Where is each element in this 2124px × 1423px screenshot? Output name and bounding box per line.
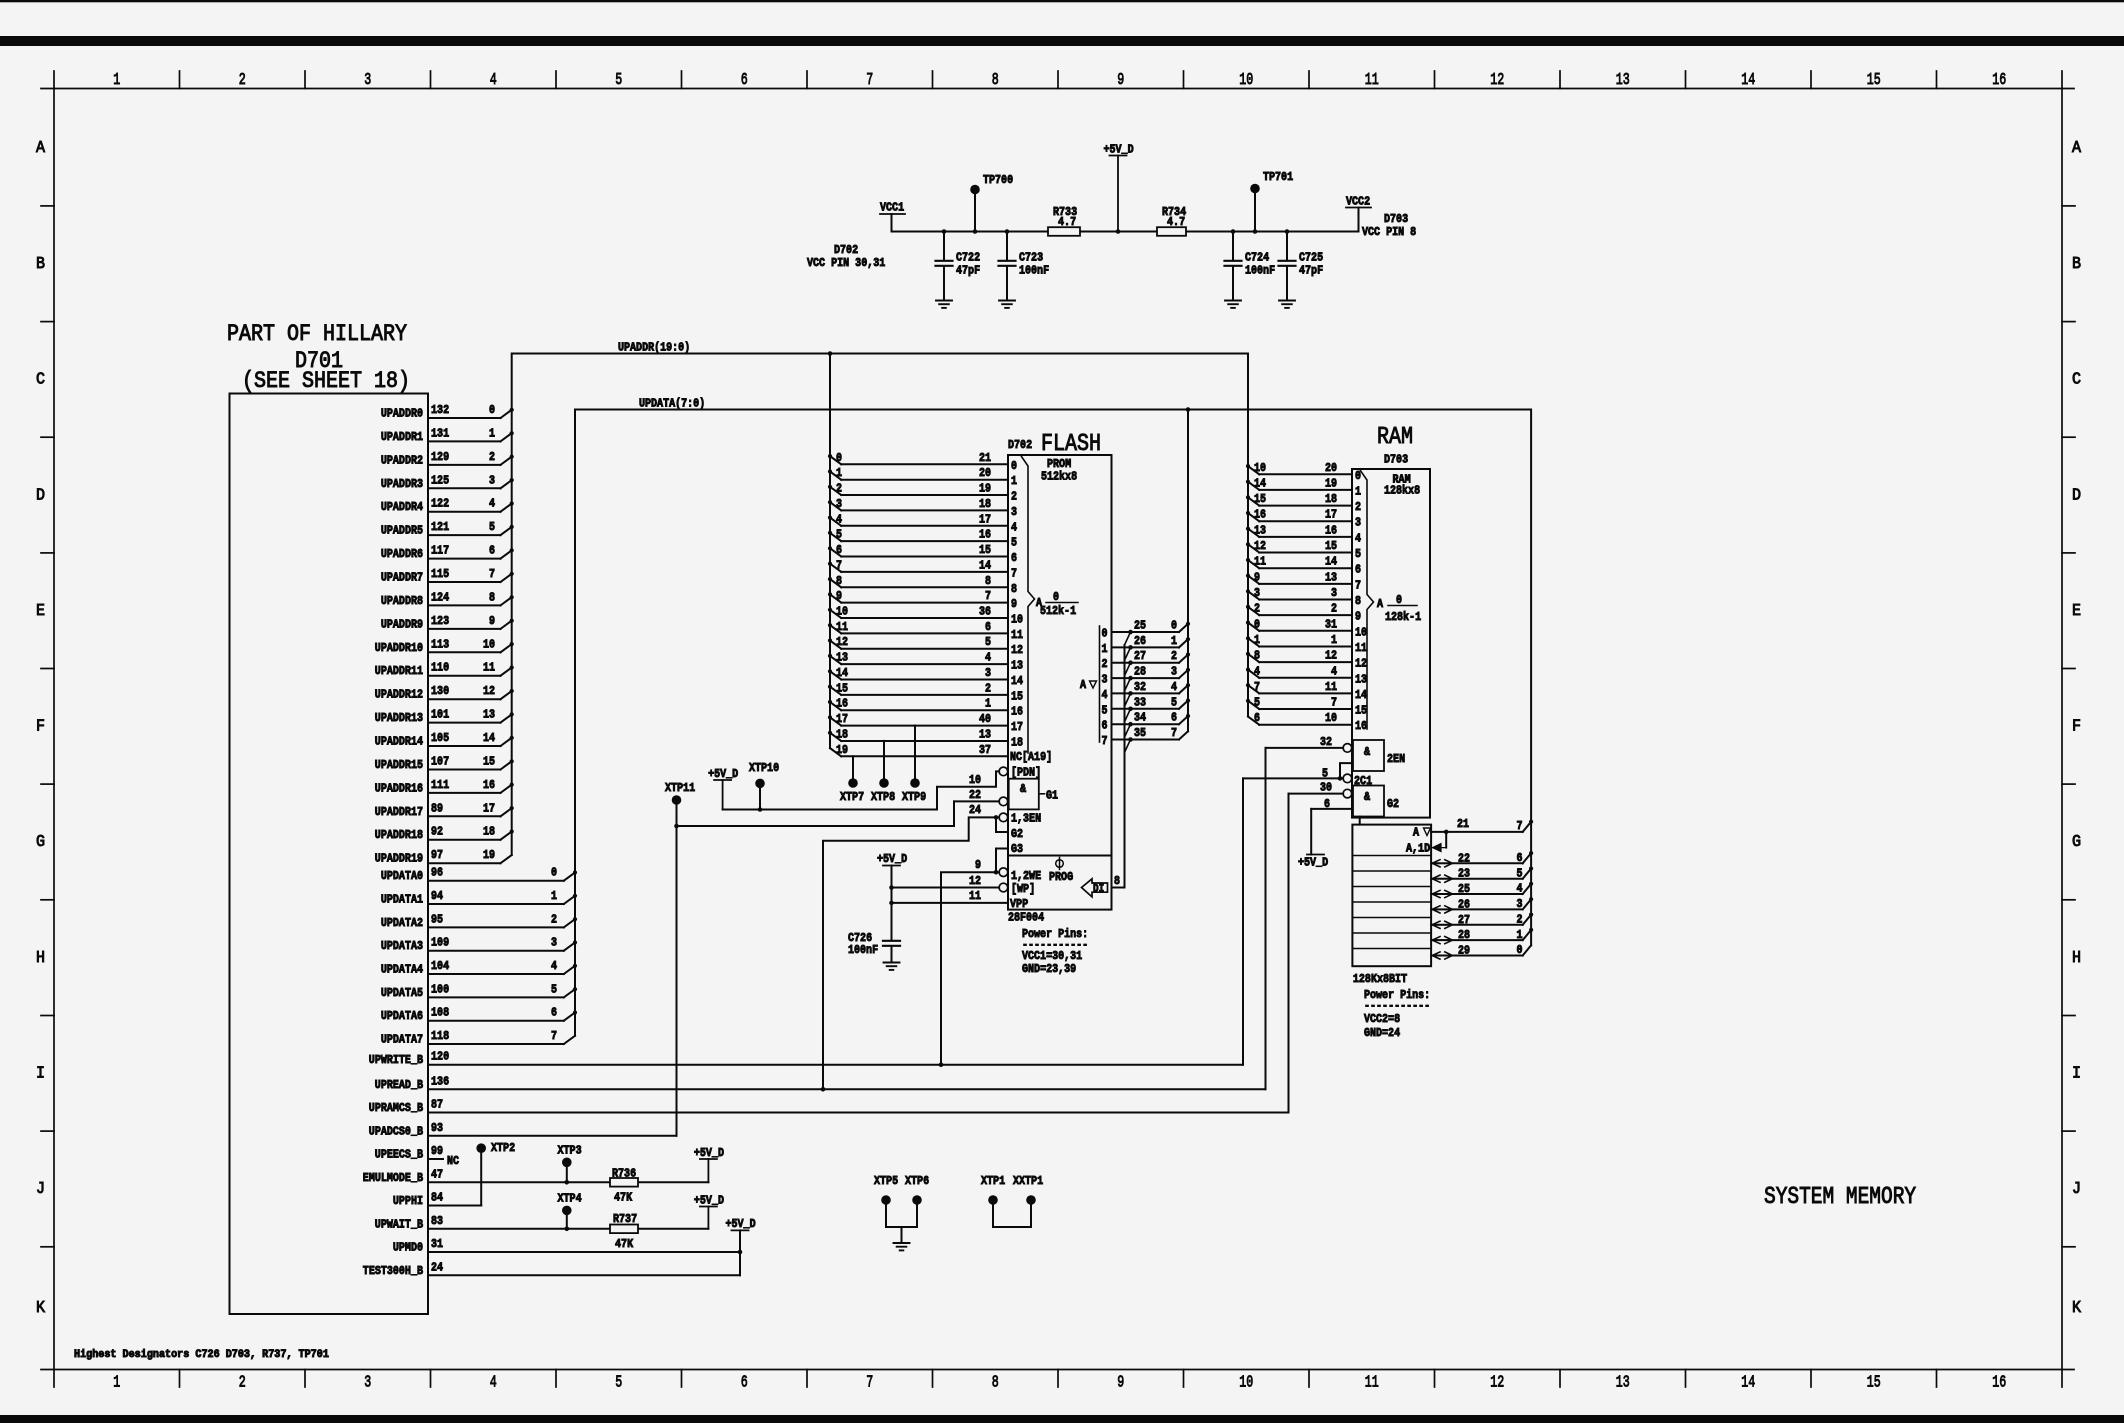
- svg-text:UPRAMCS_B: UPRAMCS_B: [369, 1101, 423, 1115]
- svg-text:2: 2: [1331, 602, 1337, 616]
- svg-text:UPADCS0_B: UPADCS0_B: [369, 1124, 423, 1138]
- svg-text:128k-1: 128k-1: [1385, 610, 1421, 624]
- svg-text:7: 7: [985, 589, 991, 603]
- svg-text:VCC PIN 30,31: VCC PIN 30,31: [807, 256, 885, 270]
- svg-text:0: 0: [1517, 943, 1523, 957]
- svg-text:E: E: [2072, 602, 2081, 621]
- svg-text:100nF: 100nF: [1245, 264, 1275, 278]
- svg-text:2: 2: [1517, 913, 1523, 927]
- svg-text:5: 5: [1254, 696, 1260, 710]
- svg-text:15: 15: [483, 755, 495, 769]
- svg-text:5: 5: [489, 520, 495, 534]
- svg-text:2: 2: [1355, 500, 1361, 514]
- svg-text:+5V_D: +5V_D: [1104, 142, 1134, 156]
- svg-text:9: 9: [1011, 597, 1017, 611]
- svg-text:E: E: [36, 602, 45, 621]
- svg-text:93: 93: [431, 1121, 443, 1135]
- svg-text:12: 12: [483, 684, 495, 698]
- svg-text:I: I: [36, 1065, 45, 1084]
- svg-text:9: 9: [975, 858, 981, 872]
- svg-text:18: 18: [979, 497, 991, 511]
- svg-text:16: 16: [1254, 508, 1266, 522]
- svg-text:32: 32: [1320, 735, 1332, 749]
- svg-text:101: 101: [431, 708, 449, 722]
- svg-text:4: 4: [1102, 688, 1108, 702]
- svg-text:I: I: [2072, 1065, 2081, 1084]
- svg-text:11: 11: [483, 661, 495, 675]
- svg-text:11: 11: [1365, 71, 1379, 90]
- svg-text:8: 8: [985, 574, 991, 588]
- svg-text:H: H: [36, 949, 45, 968]
- svg-text:5: 5: [1517, 866, 1523, 880]
- svg-text:6: 6: [1517, 851, 1523, 865]
- svg-text:+5V_D: +5V_D: [708, 767, 738, 781]
- svg-text:XTP3: XTP3: [558, 1144, 582, 1158]
- svg-text:100nF: 100nF: [848, 943, 878, 957]
- svg-text:7: 7: [551, 1029, 557, 1043]
- svg-text:4: 4: [490, 71, 497, 90]
- svg-text:D703: D703: [1384, 212, 1408, 226]
- svg-text:105: 105: [431, 731, 449, 745]
- svg-text:12: 12: [1490, 71, 1504, 90]
- svg-text:84: 84: [431, 1191, 443, 1205]
- svg-text:4: 4: [985, 651, 991, 665]
- svg-text:16: 16: [1011, 705, 1023, 719]
- svg-text:83: 83: [431, 1214, 443, 1228]
- svg-text:TEST300H_B: TEST300H_B: [363, 1264, 423, 1278]
- svg-text:128Kx8BIT: 128Kx8BIT: [1353, 972, 1407, 986]
- svg-text:0: 0: [836, 451, 842, 465]
- svg-text:47pF: 47pF: [1299, 264, 1323, 278]
- svg-text:25: 25: [1458, 882, 1470, 896]
- svg-text:10: 10: [1325, 711, 1337, 725]
- svg-text:36: 36: [979, 605, 991, 619]
- svg-text:4: 4: [1254, 664, 1260, 678]
- svg-text:3: 3: [1102, 673, 1108, 687]
- svg-text:4: 4: [1011, 520, 1017, 534]
- svg-text:1: 1: [1171, 634, 1177, 648]
- svg-text:8: 8: [1114, 874, 1120, 888]
- svg-text:12: 12: [1325, 649, 1337, 663]
- svg-text:14: 14: [1741, 1374, 1755, 1393]
- svg-text:A: A: [1377, 597, 1384, 611]
- svg-text:87: 87: [431, 1098, 443, 1112]
- svg-text:117: 117: [431, 544, 449, 558]
- svg-text:37: 37: [979, 743, 991, 757]
- svg-text:27: 27: [1458, 913, 1470, 927]
- svg-text:17: 17: [483, 801, 495, 815]
- svg-text:K: K: [2072, 1299, 2082, 1318]
- svg-text:+5V_D: +5V_D: [694, 1193, 724, 1207]
- svg-text:15: 15: [979, 543, 991, 557]
- svg-text:VPP: VPP: [1010, 897, 1028, 911]
- svg-text:10: 10: [483, 637, 495, 651]
- svg-text:FLASH: FLASH: [1041, 431, 1101, 458]
- svg-text:GND=23,39: GND=23,39: [1022, 962, 1076, 976]
- svg-text:3: 3: [1517, 897, 1523, 911]
- svg-text:G: G: [36, 833, 45, 852]
- svg-text:K: K: [36, 1299, 46, 1318]
- svg-text:4: 4: [836, 512, 842, 526]
- svg-text:5: 5: [1322, 767, 1328, 781]
- svg-text:(SEE SHEET 18): (SEE SHEET 18): [242, 368, 410, 394]
- svg-text:22: 22: [1458, 851, 1470, 865]
- svg-text:13: 13: [483, 708, 495, 722]
- svg-text:B: B: [2072, 255, 2081, 274]
- svg-text:5: 5: [1011, 536, 1017, 550]
- svg-text:123: 123: [431, 614, 449, 628]
- svg-text:24: 24: [969, 803, 981, 817]
- svg-text:6: 6: [1102, 719, 1108, 733]
- svg-text:16: 16: [1992, 71, 2006, 90]
- svg-text:VCC PIN 8: VCC PIN 8: [1362, 225, 1416, 239]
- svg-text:4: 4: [1355, 531, 1361, 545]
- svg-text:14: 14: [1355, 688, 1367, 702]
- svg-text:5: 5: [985, 635, 991, 649]
- svg-text:GND=24: GND=24: [1364, 1026, 1400, 1040]
- svg-text:5: 5: [615, 1374, 622, 1393]
- svg-text:A,1D: A,1D: [1406, 842, 1430, 856]
- svg-text:132: 132: [431, 403, 449, 417]
- svg-text:13: 13: [1011, 659, 1023, 673]
- svg-text:UPREAD_B: UPREAD_B: [375, 1078, 423, 1092]
- svg-text:512k-1: 512k-1: [1040, 604, 1076, 618]
- svg-text:PROG: PROG: [1049, 870, 1073, 884]
- svg-text:UPDATA7: UPDATA7: [381, 1033, 423, 1047]
- svg-text:14: 14: [1011, 674, 1023, 688]
- svg-text:28: 28: [1458, 928, 1470, 942]
- svg-text:2: 2: [239, 71, 246, 90]
- svg-text:122: 122: [431, 497, 449, 511]
- svg-text:VCC2=8: VCC2=8: [1364, 1012, 1400, 1026]
- svg-text:10: 10: [836, 605, 848, 619]
- svg-text:1: 1: [551, 889, 557, 903]
- svg-text:4: 4: [490, 1374, 497, 1393]
- svg-text:12: 12: [1490, 1374, 1504, 1393]
- svg-text:26: 26: [1134, 634, 1146, 648]
- svg-text:4: 4: [551, 959, 557, 973]
- svg-text:17: 17: [1011, 720, 1023, 734]
- svg-text:4: 4: [1517, 882, 1523, 896]
- svg-text:VCC2: VCC2: [1346, 195, 1370, 209]
- svg-text:118: 118: [431, 1029, 449, 1043]
- svg-text:7: 7: [489, 567, 495, 581]
- svg-text:UPWAIT_B: UPWAIT_B: [375, 1217, 423, 1231]
- svg-text:1,3EN: 1,3EN: [1011, 811, 1041, 825]
- svg-text:31: 31: [1325, 617, 1337, 631]
- svg-text:14: 14: [1741, 71, 1755, 90]
- svg-text:D: D: [2072, 486, 2081, 505]
- svg-text:13: 13: [1254, 523, 1266, 537]
- svg-text:9: 9: [1117, 71, 1124, 90]
- svg-text:11: 11: [836, 620, 848, 634]
- svg-text:136: 136: [431, 1074, 449, 1088]
- svg-text:R737: R737: [613, 1212, 637, 1226]
- svg-text:D702: D702: [1008, 438, 1032, 452]
- svg-text:13: 13: [1355, 672, 1367, 686]
- svg-text:C724: C724: [1245, 251, 1269, 265]
- svg-text:UPADDR15: UPADDR15: [375, 758, 423, 772]
- svg-text:+5V_D: +5V_D: [1298, 856, 1328, 870]
- svg-text:6: 6: [1254, 711, 1260, 725]
- svg-text:EMULMODE_B: EMULMODE_B: [363, 1171, 423, 1185]
- svg-text:14: 14: [1254, 476, 1266, 490]
- svg-text:28F004: 28F004: [1008, 911, 1044, 925]
- svg-text:21: 21: [1457, 817, 1469, 831]
- svg-text:31: 31: [431, 1237, 443, 1251]
- svg-text:[PDN]: [PDN]: [1011, 765, 1041, 779]
- svg-text:14: 14: [1325, 555, 1337, 569]
- svg-text:G3: G3: [1011, 842, 1023, 856]
- svg-text:RAM: RAM: [1377, 424, 1413, 451]
- svg-text:15: 15: [1867, 71, 1881, 90]
- svg-text:-----------: -----------: [1364, 999, 1430, 1013]
- svg-text:22: 22: [969, 788, 981, 802]
- svg-text:D: D: [36, 486, 45, 505]
- svg-text:35: 35: [1134, 726, 1146, 740]
- svg-text:5: 5: [1171, 695, 1177, 709]
- svg-text:UPMD0: UPMD0: [393, 1241, 423, 1255]
- svg-text:1: 1: [836, 466, 842, 480]
- svg-text:92: 92: [431, 825, 443, 839]
- svg-text:18: 18: [483, 825, 495, 839]
- svg-text:14: 14: [979, 558, 991, 572]
- svg-text:UPADDR7: UPADDR7: [381, 571, 423, 585]
- svg-text:18: 18: [1325, 492, 1337, 506]
- svg-text:125: 125: [431, 473, 449, 487]
- svg-text:9: 9: [836, 589, 842, 603]
- svg-text:20: 20: [979, 466, 991, 480]
- svg-text:9: 9: [1254, 570, 1260, 584]
- svg-text:UPDATA3: UPDATA3: [381, 939, 423, 953]
- svg-text:40: 40: [979, 712, 991, 726]
- svg-text:95: 95: [431, 912, 443, 926]
- svg-text:XTP6: XTP6: [905, 1174, 929, 1188]
- svg-text:A: A: [1413, 826, 1420, 840]
- svg-text:TP700: TP700: [983, 173, 1013, 187]
- svg-text:A: A: [1080, 678, 1087, 692]
- svg-text:110: 110: [431, 661, 449, 675]
- svg-text:R736: R736: [612, 1167, 636, 1181]
- svg-text:25: 25: [1134, 619, 1146, 633]
- svg-text:100: 100: [431, 982, 449, 996]
- svg-text:97: 97: [431, 848, 443, 862]
- svg-text:4.7: 4.7: [1058, 215, 1076, 229]
- svg-text:13: 13: [836, 651, 848, 665]
- svg-text:9: 9: [1117, 1374, 1124, 1393]
- svg-text:2: 2: [1011, 490, 1017, 504]
- svg-text:7: 7: [1011, 566, 1017, 580]
- svg-text:5: 5: [1102, 703, 1108, 717]
- svg-text:7: 7: [1254, 680, 1260, 694]
- svg-text:21: 21: [979, 451, 991, 465]
- svg-text:12: 12: [836, 635, 848, 649]
- svg-text:0: 0: [489, 403, 495, 417]
- svg-text:1: 1: [1254, 633, 1260, 647]
- svg-text:96: 96: [431, 866, 443, 880]
- svg-text:10: 10: [1011, 613, 1023, 627]
- svg-text:&: &: [1364, 745, 1371, 759]
- svg-text:UPDATA6: UPDATA6: [381, 1009, 423, 1023]
- svg-text:2: 2: [985, 681, 991, 695]
- svg-text:7: 7: [1517, 819, 1523, 833]
- svg-text:17: 17: [979, 512, 991, 526]
- svg-text:VCC1: VCC1: [880, 201, 904, 215]
- svg-text:10: 10: [1239, 71, 1253, 90]
- svg-text:NC[A19]: NC[A19]: [1010, 750, 1052, 764]
- svg-text:16: 16: [979, 528, 991, 542]
- svg-text:1: 1: [1517, 928, 1523, 942]
- svg-text:94: 94: [431, 889, 443, 903]
- svg-text:+5V_D: +5V_D: [726, 1217, 756, 1231]
- svg-text:XTP8: XTP8: [871, 790, 895, 804]
- svg-text:3: 3: [489, 473, 495, 487]
- svg-text:12: 12: [1254, 539, 1266, 553]
- svg-text:13: 13: [1325, 570, 1337, 584]
- svg-text:28: 28: [1134, 665, 1146, 679]
- svg-text:30: 30: [1320, 781, 1332, 795]
- svg-text:11: 11: [1254, 555, 1266, 569]
- svg-text:UPADDR18: UPADDR18: [375, 828, 423, 842]
- svg-text:D702: D702: [834, 243, 858, 257]
- svg-text:[WP]: [WP]: [1011, 882, 1035, 896]
- svg-text:10: 10: [1254, 461, 1266, 475]
- svg-text:G2: G2: [1387, 797, 1399, 811]
- svg-text:19: 19: [483, 848, 495, 862]
- svg-text:11: 11: [969, 889, 981, 903]
- svg-text:2: 2: [836, 482, 842, 496]
- svg-text:0: 0: [1254, 617, 1260, 631]
- svg-text:13: 13: [979, 728, 991, 742]
- svg-text:14: 14: [483, 731, 495, 745]
- svg-text:15: 15: [1867, 1374, 1881, 1393]
- svg-text:G1: G1: [1046, 789, 1058, 803]
- svg-text:7: 7: [866, 71, 873, 90]
- svg-text:C: C: [2072, 371, 2081, 390]
- svg-text:UPADDR14: UPADDR14: [375, 735, 423, 749]
- svg-text:XTP4: XTP4: [558, 1192, 582, 1206]
- svg-text:6: 6: [1324, 797, 1330, 811]
- svg-text:UPADDR5: UPADDR5: [381, 524, 423, 538]
- svg-text:7: 7: [1331, 696, 1337, 710]
- svg-text:5: 5: [615, 71, 622, 90]
- svg-text:6: 6: [1355, 563, 1361, 577]
- svg-text:16: 16: [1992, 1374, 2006, 1393]
- svg-text:SYSTEM MEMORY: SYSTEM MEMORY: [1764, 1184, 1916, 1211]
- svg-text:6: 6: [741, 1374, 748, 1393]
- svg-text:8: 8: [489, 590, 495, 604]
- svg-text:32: 32: [1134, 680, 1146, 694]
- svg-text:16: 16: [1355, 719, 1367, 733]
- svg-text:2: 2: [1254, 602, 1260, 616]
- svg-text:2: 2: [1102, 657, 1108, 671]
- svg-text:14: 14: [836, 666, 848, 680]
- svg-text:23: 23: [1458, 867, 1470, 881]
- svg-text:12: 12: [1355, 657, 1367, 671]
- svg-text:33: 33: [1134, 695, 1146, 709]
- svg-text:3: 3: [364, 1374, 371, 1393]
- svg-text:16: 16: [483, 778, 495, 792]
- svg-text:5: 5: [836, 528, 842, 542]
- svg-text:UPDATA1: UPDATA1: [381, 893, 423, 907]
- svg-text:13: 13: [1616, 71, 1630, 90]
- svg-text:29: 29: [1458, 944, 1470, 958]
- svg-text:G2: G2: [1011, 827, 1023, 841]
- svg-text:10: 10: [1239, 1374, 1253, 1393]
- svg-text:3: 3: [836, 497, 842, 511]
- svg-text:1: 1: [1011, 474, 1017, 488]
- svg-text:UPADDR1: UPADDR1: [381, 430, 423, 444]
- svg-text:17: 17: [836, 712, 848, 726]
- svg-text:19: 19: [1325, 476, 1337, 490]
- svg-text:7: 7: [1102, 734, 1108, 748]
- svg-text:8: 8: [1355, 594, 1361, 608]
- svg-text:111: 111: [431, 778, 449, 792]
- svg-text:27: 27: [1134, 649, 1146, 663]
- svg-text:107: 107: [431, 755, 449, 769]
- svg-text:3: 3: [1355, 516, 1361, 530]
- svg-text:6: 6: [836, 543, 842, 557]
- svg-text:115: 115: [431, 567, 449, 581]
- svg-text:3: 3: [1011, 505, 1017, 519]
- svg-text:UPADDR8: UPADDR8: [381, 594, 423, 608]
- svg-text:&: &: [1020, 782, 1027, 796]
- svg-text:PART OF HILLARY: PART OF HILLARY: [227, 321, 407, 347]
- svg-text:DI: DI: [1093, 884, 1104, 896]
- svg-text:6: 6: [985, 620, 991, 634]
- svg-text:8: 8: [1254, 649, 1260, 663]
- svg-text:J: J: [2072, 1180, 2081, 1199]
- svg-text:0: 0: [1102, 627, 1108, 641]
- svg-text:UPADDR13: UPADDR13: [375, 711, 423, 725]
- svg-text:11: 11: [1325, 680, 1337, 694]
- svg-text:UPADDR10: UPADDR10: [375, 641, 423, 655]
- svg-text:2: 2: [489, 450, 495, 464]
- svg-text:UPDATA(7:0): UPDATA(7:0): [639, 397, 705, 411]
- svg-text:A: A: [2072, 139, 2082, 158]
- svg-text:13: 13: [1616, 1374, 1630, 1393]
- svg-text:C723: C723: [1019, 251, 1043, 265]
- svg-text:UPADDR16: UPADDR16: [375, 781, 423, 795]
- svg-text:1: 1: [985, 697, 991, 711]
- svg-text:XTP7: XTP7: [840, 790, 864, 804]
- svg-text:1: 1: [113, 71, 120, 90]
- svg-text:130: 130: [431, 684, 449, 698]
- svg-text:UPEECS_B: UPEECS_B: [375, 1148, 423, 1162]
- svg-text:24: 24: [431, 1260, 443, 1274]
- svg-text:15: 15: [1355, 704, 1367, 718]
- svg-text:UPDATA2: UPDATA2: [381, 916, 423, 930]
- svg-text:1: 1: [113, 1374, 120, 1393]
- svg-text:2EN: 2EN: [1387, 752, 1405, 766]
- svg-text:3: 3: [985, 666, 991, 680]
- svg-text:UPADDR3: UPADDR3: [381, 477, 423, 491]
- svg-text:A: A: [36, 139, 46, 158]
- svg-text:512kx8: 512kx8: [1041, 470, 1077, 484]
- svg-text:UPADDR2: UPADDR2: [381, 453, 423, 467]
- svg-text:+5V_D: +5V_D: [877, 852, 907, 866]
- svg-text:120: 120: [431, 1050, 449, 1064]
- svg-text:15: 15: [1011, 689, 1023, 703]
- svg-text:UPDATA0: UPDATA0: [381, 869, 423, 883]
- svg-text:15: 15: [1254, 492, 1266, 506]
- svg-text:UPADDR9: UPADDR9: [381, 617, 423, 631]
- svg-text:47K: 47K: [615, 1237, 634, 1251]
- svg-text:26: 26: [1458, 897, 1470, 911]
- svg-text:3: 3: [364, 71, 371, 90]
- svg-text:18: 18: [836, 728, 848, 742]
- svg-text:34: 34: [1134, 711, 1146, 725]
